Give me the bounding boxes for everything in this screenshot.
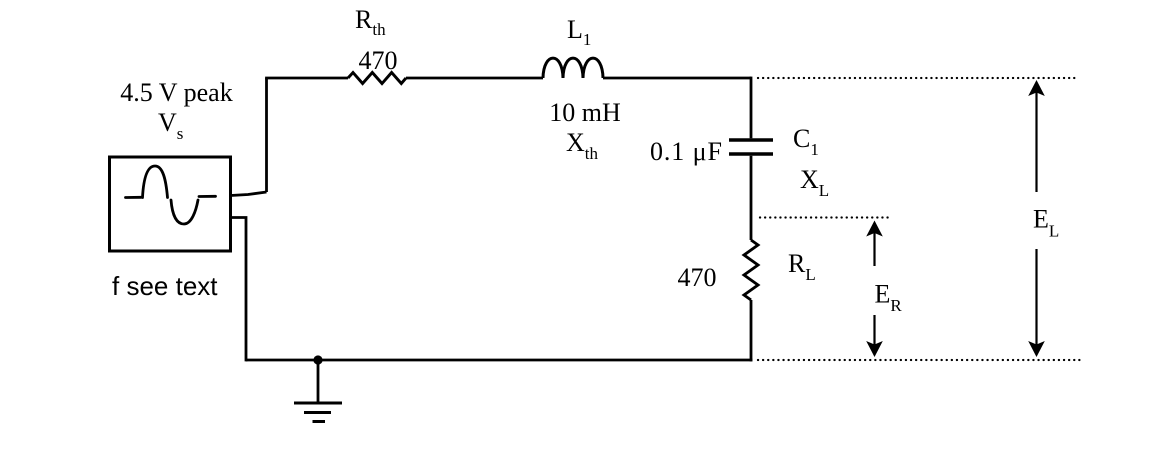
capacitor C1 top plate <box>729 138 773 141</box>
EL measurement arrow upper half <box>1028 80 1045 192</box>
wire right branch upper <box>750 77 753 139</box>
dotted reference line bottom <box>758 359 1081 361</box>
wire top rail middle segment <box>406 77 543 80</box>
voltage source box Vs <box>110 157 231 251</box>
svg-text:XL: XL <box>800 165 829 200</box>
wire bottom rail <box>246 359 752 362</box>
resistor Rth zigzag <box>348 73 406 84</box>
svg-text:0.1 μF: 0.1 μF <box>650 137 723 166</box>
inductor L1 coil <box>543 58 603 78</box>
wire top rail right segment <box>603 77 751 80</box>
ground stem <box>317 360 320 403</box>
svg-text:470: 470 <box>678 263 717 292</box>
wire left riser up to top rail <box>265 78 268 192</box>
svg-text:C1: C1 <box>793 124 819 159</box>
svg-text:Rth: Rth <box>355 5 386 39</box>
wire from source upper terminal to left riser <box>231 192 267 196</box>
ER measurement arrow lower half <box>866 315 883 357</box>
svg-text:Xth: Xth <box>566 128 599 163</box>
ER measurement arrow upper half <box>866 221 883 267</box>
capacitor C1 bottom plate <box>729 152 773 155</box>
dotted reference line top <box>758 77 1076 79</box>
svg-text:4.5 V peak: 4.5 V peak <box>120 78 232 107</box>
junction node dot <box>313 355 322 364</box>
dotted reference line middle <box>760 216 888 218</box>
svg-text:ER: ER <box>875 280 903 316</box>
svg-text:L1: L1 <box>567 15 591 49</box>
svg-text:f see text: f see text <box>112 271 218 301</box>
svg-text:470: 470 <box>359 46 398 75</box>
wire right branch middle <box>750 156 753 240</box>
wire left drop from source lower terminal <box>231 218 247 362</box>
ground bar 2 <box>304 411 331 414</box>
svg-text:RL: RL <box>788 249 816 284</box>
ground bar 1 <box>294 402 342 405</box>
svg-text:Vs: Vs <box>158 108 183 143</box>
ground bar 3 <box>313 420 326 423</box>
wire top rail left segment <box>265 77 348 80</box>
svg-text:EL: EL <box>1033 205 1059 241</box>
EL measurement arrow lower half <box>1028 249 1045 357</box>
wire right branch lower <box>750 300 753 361</box>
svg-text:10 mH: 10 mH <box>549 98 621 127</box>
resistor RL zigzag <box>744 240 758 300</box>
voltage source sine waveform <box>126 166 216 224</box>
